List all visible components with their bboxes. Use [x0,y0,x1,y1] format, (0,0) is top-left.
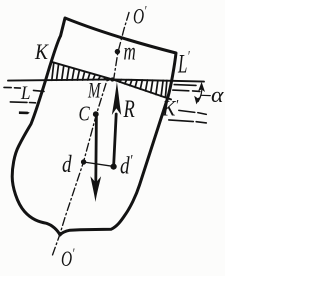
svg-text:α: α [211,83,224,107]
label O' bottom [61,244,75,272]
waterline K-K' (ship waterline, tilted) [53,62,171,99]
label d [62,151,72,178]
water dashes right of hull [169,85,207,123]
angle alpha arc with arrowheads [198,85,202,102]
thick pointed water dash lower-left [19,111,30,114]
svg-text:L: L [20,82,30,103]
svg-text:R: R [123,94,136,122]
alpha leader line [202,94,211,96]
line d to d' [84,162,114,166]
right wedge hatching [120,80,167,98]
label L [20,82,30,103]
weight force arrowhead [90,176,101,202]
label M [87,79,101,104]
new buoyancy center dot d' [111,164,117,170]
svg-text:m: m [124,37,136,65]
label L' [177,47,190,78]
label C [79,103,90,126]
hull outline [12,18,176,235]
axis O'-O' (dash-dot centerline) [53,13,130,256]
svg-text:K′: K′ [162,97,180,121]
svg-text:K: K [34,41,49,64]
svg-text:M: M [87,79,101,104]
buoyancy force R arrowhead [112,82,121,115]
label K' [162,97,180,121]
left wedge hatching [52,63,106,81]
weight force arrow shaft from C [94,115,97,183]
label O' top [133,2,147,30]
label alpha [211,83,224,107]
label d' [120,152,133,179]
svg-text:C: C [79,103,90,126]
waterline L-L' (water surface, horizontal) [8,79,204,81]
svg-text:d: d [62,151,72,178]
buoyancy center dot d [81,159,86,164]
metacenter dot m [115,49,120,54]
svg-text:L′: L′ [177,47,190,78]
water dashes left of hull [4,87,44,102]
svg-text:O′: O′ [61,244,75,272]
label R [123,94,136,122]
label m [124,37,136,65]
K' line dashed extension [179,110,207,114]
svg-text:O′: O′ [133,2,147,30]
svg-text:d′: d′ [120,152,133,179]
buoyancy force R arrow shaft [114,114,117,167]
waterline crossing blob [110,77,114,81]
label K [34,41,49,64]
center of gravity dot C [93,111,99,117]
